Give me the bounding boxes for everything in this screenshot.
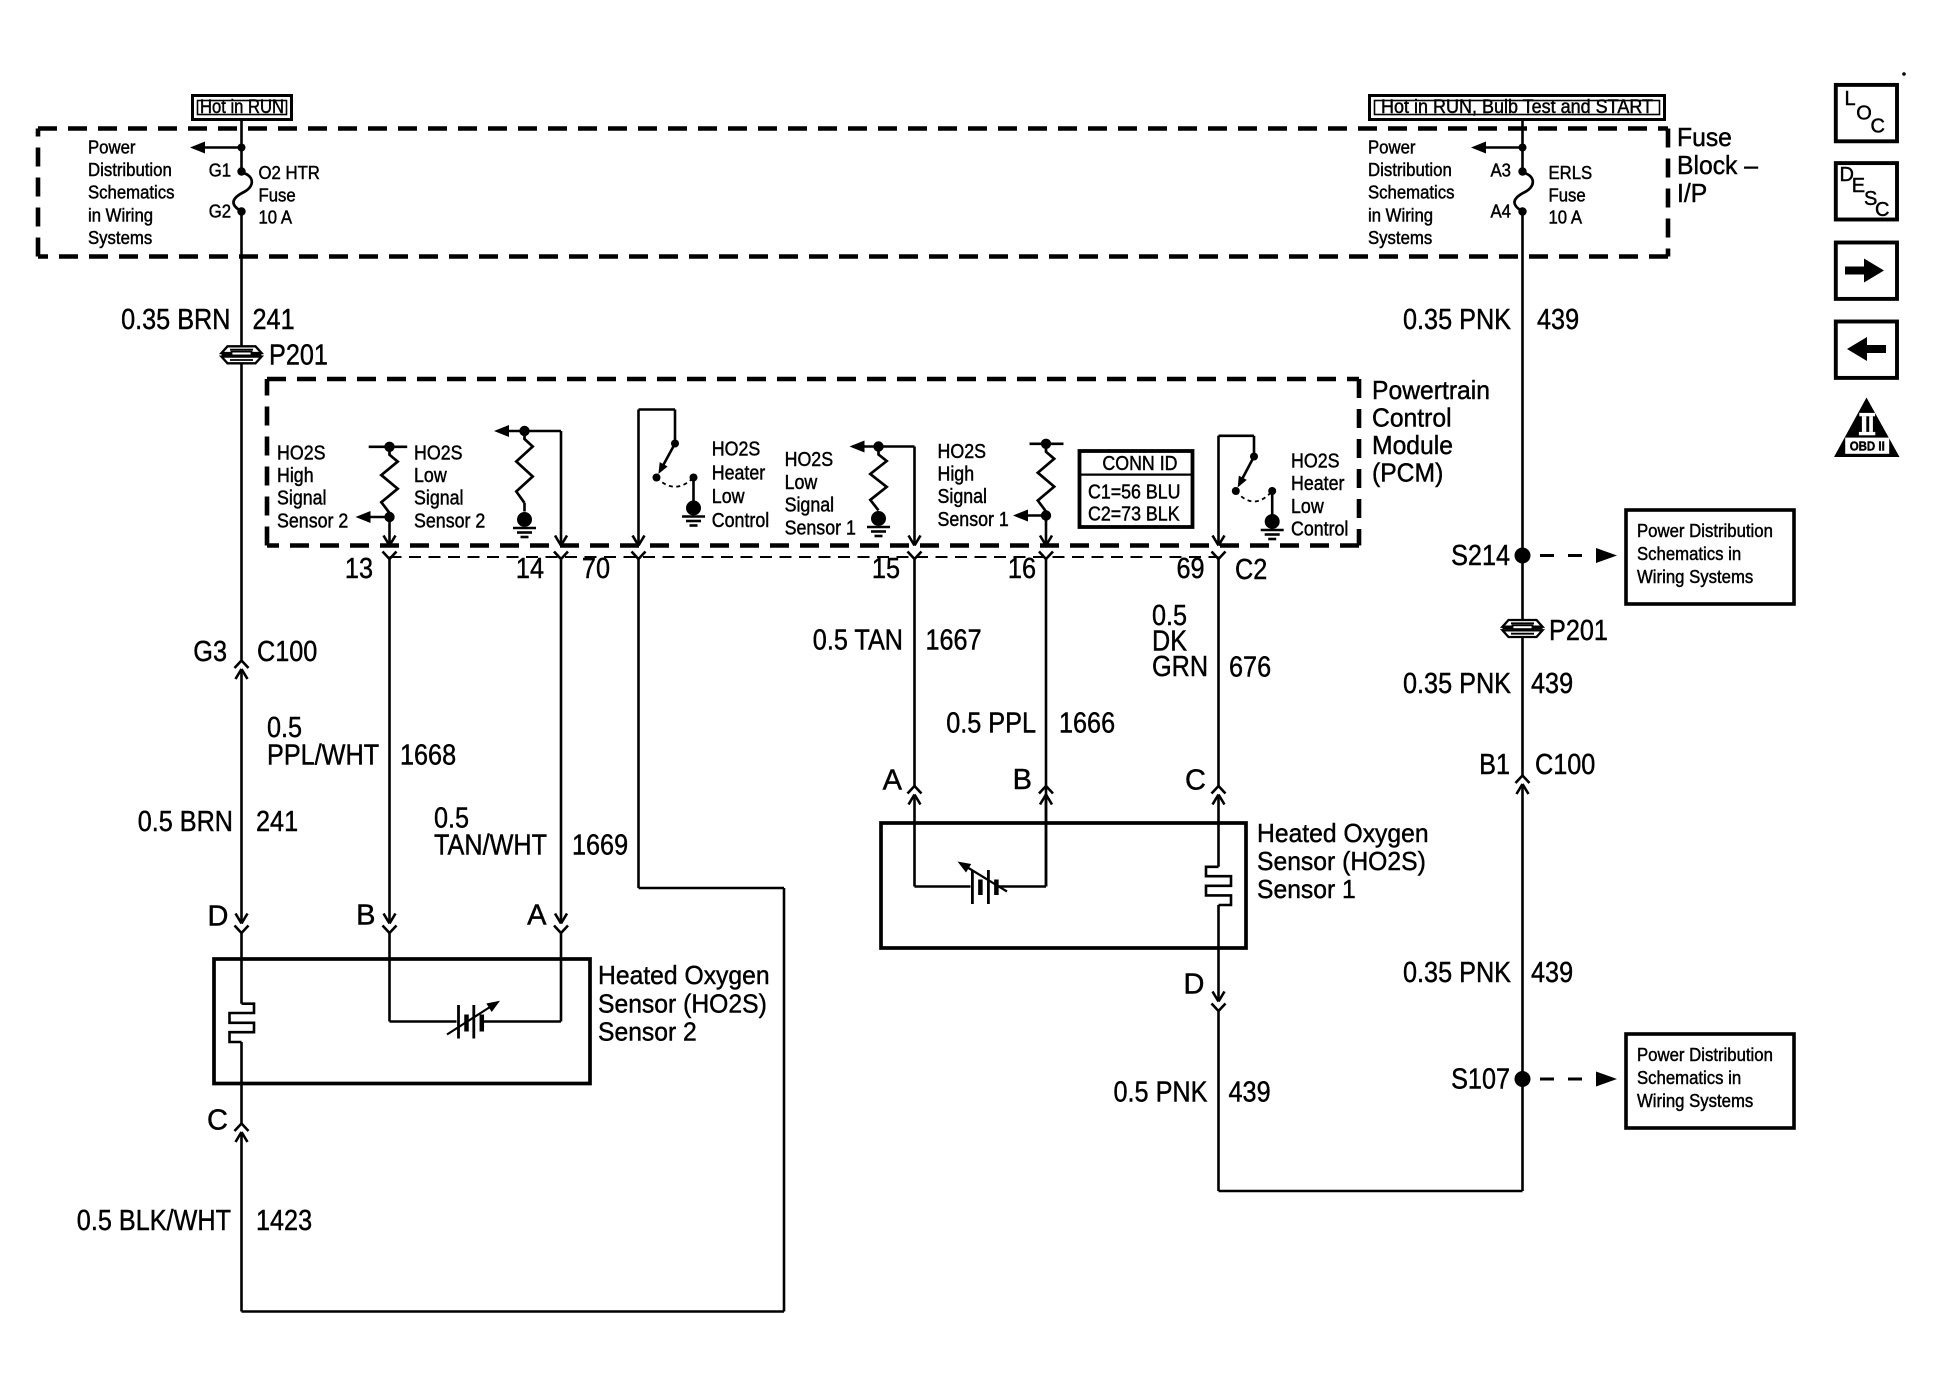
- svg-text:Low: Low: [785, 472, 818, 494]
- arrow to Sensor 2 label: [370, 516, 390, 519]
- svg-text:Module: Module: [1372, 430, 1453, 460]
- svg-text:HO2S: HO2S: [938, 441, 987, 463]
- svg-text:Power Distribution: Power Distribution: [1637, 1045, 1773, 1065]
- svg-text:Distribution: Distribution: [1368, 160, 1452, 180]
- svg-text:OBD II: OBD II: [1850, 439, 1885, 454]
- wire from Hot in RUN Bulb Test: [1521, 120, 1524, 170]
- svg-text:1669: 1669: [572, 830, 628, 862]
- svg-text:C1=56 BLU: C1=56 BLU: [1088, 482, 1181, 504]
- svg-text:Heated Oxygen: Heated Oxygen: [598, 960, 770, 990]
- PCM connector face dashed line: [390, 556, 1219, 558]
- svg-text:Signal: Signal: [785, 495, 835, 517]
- svg-text:0.35 PNK: 0.35 PNK: [1403, 668, 1512, 700]
- svg-text:Schematics: Schematics: [1368, 183, 1455, 203]
- variable arrow (sensor 2): [447, 1007, 490, 1035]
- svg-text:Sensor 2: Sensor 2: [598, 1017, 697, 1047]
- svg-text:Wiring Systems: Wiring Systems: [1637, 1091, 1753, 1111]
- connector B (sensor 1): [1039, 786, 1053, 794]
- svg-text:Low: Low: [414, 465, 447, 487]
- svg-text:Heater: Heater: [712, 462, 766, 484]
- stray dot: [1902, 72, 1906, 76]
- svg-text:Sensor 2: Sensor 2: [414, 510, 485, 532]
- svg-text:G3: G3: [193, 636, 227, 668]
- sensor cell (sensor 1): [913, 823, 916, 887]
- svg-text:A4: A4: [1491, 202, 1512, 222]
- wire to pin 15: [913, 447, 916, 546]
- wire A4 down to S214: [1521, 212, 1524, 556]
- fuse O2 HTR G1/G2: [237, 167, 245, 175]
- svg-text:(PCM): (PCM): [1372, 458, 1443, 488]
- resistor HO2S High Signal Sensor 1: [1030, 442, 1064, 445]
- svg-text:241: 241: [256, 806, 298, 838]
- svg-text:A: A: [883, 765, 903, 797]
- svg-text:HO2S: HO2S: [414, 443, 463, 465]
- svg-text:HO2S: HO2S: [712, 439, 761, 461]
- svg-text:C2=73 BLK: C2=73 BLK: [1088, 504, 1180, 526]
- ref box Power Distribution (upper): [1626, 510, 1794, 604]
- svg-text:ERLS: ERLS: [1549, 163, 1593, 183]
- wire to pin 14: [560, 431, 563, 546]
- svg-text:Powertrain: Powertrain: [1372, 375, 1490, 405]
- svg-text:Hot in RUN: Hot in RUN: [200, 97, 284, 118]
- svg-text:B1: B1: [1479, 749, 1510, 781]
- svg-text:Power Distribution: Power Distribution: [1637, 521, 1773, 541]
- Heated Oxygen Sensor HO2S Sensor 1 box: [881, 823, 1246, 948]
- svg-text:L: L: [1845, 88, 1856, 110]
- svg-text:HO2S: HO2S: [785, 449, 834, 471]
- svg-text:Distribution: Distribution: [88, 160, 172, 180]
- connector C (sensor 2): [240, 1084, 243, 1124]
- arrow to Power Distribution (right): [1483, 146, 1523, 149]
- svg-text:Power: Power: [1368, 138, 1416, 158]
- arrow to Sensor 1 label: [1026, 514, 1046, 517]
- svg-text:10 A: 10 A: [259, 208, 293, 228]
- svg-text:Signal: Signal: [277, 488, 327, 510]
- pin 16: [1039, 552, 1053, 560]
- svg-text:HO2S: HO2S: [277, 443, 326, 465]
- fuse block I/P dashed box: [38, 126, 1668, 131]
- svg-text:C: C: [1875, 199, 1889, 221]
- splice P201 (left): [222, 346, 262, 353]
- svg-text:439: 439: [1531, 957, 1573, 989]
- svg-text:in Wiring: in Wiring: [1368, 205, 1433, 225]
- svg-text:A: A: [527, 900, 547, 932]
- OBD II icon: [1834, 398, 1900, 458]
- CONN ID table: [1080, 451, 1193, 527]
- pin 69 / C2: [1212, 552, 1226, 560]
- svg-text:P201: P201: [269, 340, 328, 372]
- Heated Oxygen Sensor HO2S Sensor 2 box: [214, 959, 590, 1084]
- connector D (sensor 2): [236, 914, 242, 924]
- svg-text:Fuse: Fuse: [1549, 186, 1586, 206]
- svg-text:Schematics in: Schematics in: [1637, 1068, 1741, 1088]
- svg-text:B: B: [1013, 764, 1032, 796]
- svg-text:S214: S214: [1451, 540, 1510, 572]
- svg-text:1666: 1666: [1059, 708, 1115, 740]
- svg-text:69: 69: [1177, 553, 1205, 585]
- connector B1 C100: [1521, 637, 1524, 776]
- sensor cell (sensor 2): [388, 959, 391, 1022]
- svg-text:Signal: Signal: [414, 488, 464, 510]
- back arrow icon: [1836, 322, 1897, 378]
- svg-text:1667: 1667: [926, 625, 982, 657]
- svg-text:10 A: 10 A: [1549, 208, 1583, 228]
- svg-text:Wiring Systems: Wiring Systems: [1637, 567, 1753, 587]
- svg-text:A3: A3: [1491, 161, 1512, 181]
- variable arrow (sensor 1): [966, 867, 1007, 892]
- pin 15: [908, 552, 922, 560]
- connector C (sensor 1): [1212, 786, 1226, 794]
- svg-text:GRN: GRN: [1152, 651, 1208, 683]
- ground (HO2S Low Signal Sensor 1): [871, 511, 886, 526]
- svg-text:HO2S: HO2S: [1291, 451, 1340, 473]
- connector G3 C100: [235, 661, 249, 669]
- svg-text:Sensor 1: Sensor 1: [1257, 874, 1356, 904]
- svg-text:in Wiring: in Wiring: [88, 205, 153, 225]
- svg-text:70: 70: [582, 553, 610, 585]
- svg-text:0.5 PPL: 0.5 PPL: [946, 708, 1036, 740]
- svg-text:0.5 BRN: 0.5 BRN: [138, 806, 233, 838]
- svg-text:Low: Low: [712, 486, 745, 508]
- svg-text:Sensor (HO2S): Sensor (HO2S): [598, 989, 767, 1019]
- forward arrow icon: [1836, 243, 1897, 299]
- wire G2 down to P201: [240, 212, 243, 347]
- svg-text:Systems: Systems: [88, 228, 152, 248]
- svg-text:1668: 1668: [400, 740, 456, 772]
- svg-text:TAN/WHT: TAN/WHT: [434, 830, 547, 862]
- splice P201 (right): [1503, 620, 1543, 627]
- LOC icon: [1836, 85, 1897, 141]
- splice S214: [1515, 548, 1531, 564]
- svg-text:Systems: Systems: [1368, 228, 1432, 248]
- svg-text:16: 16: [1008, 553, 1036, 585]
- ref box Power Distribution (lower): [1626, 1034, 1794, 1128]
- svg-text:C100: C100: [1535, 749, 1595, 781]
- svg-text:Control: Control: [1372, 403, 1452, 433]
- svg-text:0.5 BLK/WHT: 0.5 BLK/WHT: [77, 1205, 231, 1237]
- Hot in RUN, Bulb Test and START label box: [1370, 96, 1665, 120]
- dashed arrow S214 to Power Distribution ref: [1540, 554, 1592, 557]
- svg-text:0.35 BRN: 0.35 BRN: [121, 304, 230, 336]
- svg-text:Heater: Heater: [1291, 473, 1345, 495]
- svg-text:676: 676: [1229, 652, 1271, 684]
- connector B (sensor 2): [384, 914, 390, 924]
- ground (HO2S Low Signal Sensor 2): [517, 512, 532, 527]
- heater element (sensor 2): [240, 959, 243, 1004]
- svg-text:High: High: [277, 465, 314, 487]
- HO2S Heater Low Control driver (sensor 1): [1219, 434, 1255, 437]
- DESC icon: [1836, 163, 1897, 219]
- wire to pin 16: [1045, 516, 1048, 546]
- svg-text:Fuse: Fuse: [259, 186, 296, 206]
- svg-text:C: C: [1871, 115, 1885, 137]
- svg-text:241: 241: [253, 304, 295, 336]
- svg-text:Low: Low: [1291, 496, 1324, 518]
- wire to pin 13: [388, 517, 391, 546]
- svg-text:High: High: [938, 464, 975, 486]
- HO2S Heater Low Control driver (sensor 2): [639, 408, 676, 411]
- wire P201 to C100: [240, 363, 243, 660]
- svg-text:Hot in RUN, Bulb Test and STAR: Hot in RUN, Bulb Test and START: [1381, 97, 1653, 118]
- svg-text:14: 14: [516, 553, 544, 585]
- svg-text:439: 439: [1537, 304, 1579, 336]
- heater loop wire (sensor 2): [639, 887, 785, 890]
- svg-text:P201: P201: [1549, 615, 1608, 647]
- svg-text:Control: Control: [1291, 519, 1348, 541]
- connector D (sensor 1): [1217, 948, 1220, 1002]
- svg-text:Power: Power: [88, 138, 136, 158]
- svg-text:Sensor 1: Sensor 1: [785, 517, 856, 539]
- svg-text:0.35 PNK: 0.35 PNK: [1403, 957, 1512, 989]
- svg-text:I/P: I/P: [1677, 178, 1707, 208]
- svg-text:13: 13: [345, 553, 373, 585]
- wire D to S107 branch: [1219, 1190, 1523, 1193]
- svg-text:15: 15: [872, 553, 900, 585]
- svg-text:O: O: [1856, 102, 1872, 124]
- svg-text:C100: C100: [257, 636, 317, 668]
- svg-text:0.5 TAN: 0.5 TAN: [813, 625, 903, 657]
- svg-text:Schematics: Schematics: [88, 183, 175, 203]
- dashed arrow S107 to Power Distribution ref: [1540, 1078, 1592, 1081]
- svg-text:C2: C2: [1235, 554, 1267, 586]
- arrow to Power Distribution (left): [202, 146, 242, 149]
- pin 13: [383, 552, 397, 560]
- heater element (sensor 1): [1217, 823, 1220, 867]
- svg-text:D: D: [1184, 969, 1205, 1001]
- resistor HO2S High Signal Sensor 2: [369, 445, 408, 448]
- svg-text:D: D: [208, 901, 229, 933]
- wire S214 to P201: [1521, 556, 1524, 621]
- svg-text:Sensor 2: Sensor 2: [277, 510, 348, 532]
- pin 70: [632, 552, 646, 560]
- svg-text:439: 439: [1229, 1077, 1271, 1109]
- svg-text:Schematics in: Schematics in: [1637, 544, 1741, 564]
- svg-text:0.35 PNK: 0.35 PNK: [1403, 304, 1512, 336]
- svg-text:CONN ID: CONN ID: [1102, 453, 1177, 475]
- wire from Hot in RUN: [240, 120, 243, 170]
- svg-text:1423: 1423: [256, 1205, 312, 1237]
- svg-text:B: B: [356, 900, 375, 932]
- svg-text:G1: G1: [209, 161, 231, 181]
- connector A (sensor 2): [555, 914, 561, 924]
- svg-text:C: C: [207, 1105, 228, 1137]
- svg-text:PPL/WHT: PPL/WHT: [267, 740, 379, 772]
- pin 14: [554, 552, 568, 560]
- svg-text:Sensor 1: Sensor 1: [938, 509, 1009, 531]
- svg-text:Block –: Block –: [1677, 150, 1759, 180]
- svg-text:Control: Control: [712, 510, 769, 532]
- svg-text:439: 439: [1531, 668, 1573, 700]
- fuse ERLS A3/A4: [1518, 167, 1526, 175]
- connector A (sensor 1): [908, 786, 922, 794]
- svg-text:C: C: [1185, 765, 1206, 797]
- PCM dashed box: [267, 377, 1359, 382]
- svg-text:Signal: Signal: [938, 486, 988, 508]
- svg-text:O2 HTR: O2 HTR: [259, 163, 320, 183]
- resistor HO2S Low Signal Sensor 1: [862, 445, 915, 448]
- svg-text:Heated Oxygen: Heated Oxygen: [1257, 818, 1429, 848]
- Hot in RUN label box: [193, 96, 292, 120]
- svg-text:G2: G2: [209, 202, 231, 222]
- svg-text:S107: S107: [1451, 1064, 1510, 1096]
- svg-text:Sensor (HO2S): Sensor (HO2S): [1257, 846, 1426, 876]
- splice S107: [1515, 1071, 1531, 1087]
- resistor HO2S Low Signal Sensor 2: [506, 430, 561, 433]
- svg-text:0.5 PNK: 0.5 PNK: [1114, 1077, 1209, 1109]
- svg-text:Fuse: Fuse: [1677, 122, 1732, 152]
